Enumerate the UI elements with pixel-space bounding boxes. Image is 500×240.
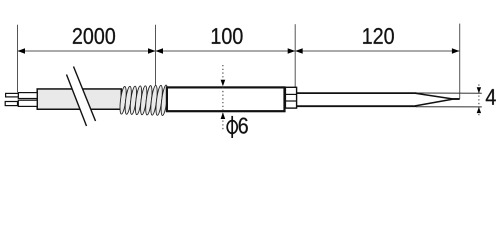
top lead pin [6, 93, 19, 97]
phi6 bottom arrow [221, 112, 226, 119]
dim 4 top arrow [477, 87, 481, 93]
top lead wire [18, 93, 37, 99]
label 2000 [73, 28, 115, 44]
phi symbol [227, 116, 237, 138]
break line right [74, 67, 96, 122]
handle body [167, 87, 285, 111]
label 120 [363, 28, 394, 44]
extension line at 2000/100 boundary (x=155.5) [155, 25, 157, 87]
arrow left of 2000 [18, 48, 26, 54]
arrow right of 100 [288, 48, 296, 54]
shaft bottom extension line for dim 4 [416, 106, 482, 108]
arrow right of 2000 [148, 48, 156, 54]
tip edge segment [451, 98, 460, 100]
label 6 [239, 118, 248, 134]
break line left [67, 75, 87, 127]
shaft top line [297, 92, 417, 94]
shaft top extension line for dim 4 [416, 92, 482, 94]
spring strain relief coils [119, 85, 169, 116]
label 100 [212, 28, 243, 44]
dim 4 bottom arrow [477, 107, 481, 113]
bottom lead wire [18, 100, 37, 106]
cable jacket [37, 89, 121, 109]
dimension line 100 [156, 50, 296, 52]
shaft bottom line [297, 105, 417, 107]
dimension line 120 [295, 50, 459, 52]
phi6 dotted dimension line [222, 65, 224, 131]
cable break gap [67, 67, 96, 127]
label 4 [486, 89, 496, 105]
extension line left end (x=17.5) [17, 25, 19, 93]
collar line lower [285, 100, 296, 102]
bottom lead pin [5, 102, 17, 106]
tip taper bottom [415, 99, 452, 106]
phi6 top arrow [221, 80, 226, 87]
dimension line 2000 [18, 50, 156, 52]
dim 4 dotted line [478, 84, 480, 117]
extension line right end at tip (x=459.7) [459, 24, 461, 99]
tip taper top [415, 93, 452, 99]
arrow left of 100 [156, 48, 164, 54]
arrow right of 120 [452, 48, 460, 54]
collar [285, 87, 296, 108]
extension line at 100/120 boundary (x=295.2) [294, 24, 296, 87]
arrow left of 120 [295, 48, 303, 54]
collar line upper [285, 93, 296, 95]
